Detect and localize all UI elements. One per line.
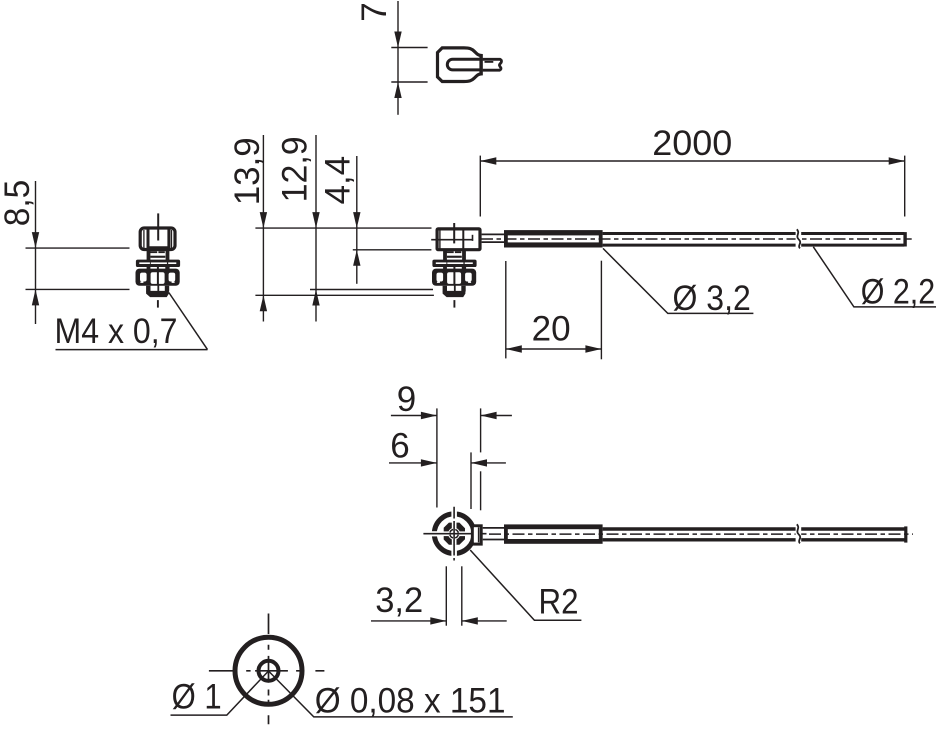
nut facet right <box>169 273 176 282</box>
dimension 7 arrow up <box>394 82 401 98</box>
extension line right <box>904 156 906 217</box>
extension line 12,9 <box>310 289 433 291</box>
head block inner line left <box>439 229 441 251</box>
ring head top view <box>434 514 474 554</box>
tip outline <box>148 286 167 292</box>
extension line top of head <box>255 227 431 229</box>
dimension 7 extension line lower <box>391 81 427 83</box>
washer <box>136 260 180 267</box>
section centerline horizontal <box>209 670 325 672</box>
bolt head front <box>140 228 175 250</box>
tab top view <box>472 526 481 544</box>
svg-text:6: 6 <box>390 426 409 465</box>
svg-text:8,5: 8,5 <box>0 180 37 227</box>
extension line B upper <box>480 408 482 452</box>
tip centerline <box>157 286 159 292</box>
extension line A <box>436 408 438 507</box>
cable break white gap <box>796 229 802 249</box>
cable bottom wall (lower) <box>603 538 905 541</box>
svg-text:Ø 0,08 x 151: Ø 0,08 x 151 <box>315 682 506 721</box>
nut facet left <box>140 273 147 282</box>
head block centerline horizontal <box>431 239 473 241</box>
tab inner line <box>478 527 480 542</box>
svg-text:9: 9 <box>397 380 416 419</box>
centerline below <box>157 300 159 308</box>
tab inner white slot <box>474 527 480 542</box>
head block side view <box>437 229 480 250</box>
stub line bottom (lower view) <box>483 539 505 541</box>
thread line <box>150 256 165 258</box>
svg-text:M4 x 0,7: M4 x 0,7 <box>55 312 178 351</box>
ring gap bottom <box>451 551 457 560</box>
dimension 8,5 arrow up <box>32 289 39 305</box>
thread dash row <box>150 251 157 253</box>
head block inner line mid <box>462 229 464 251</box>
bolt head tangent line right <box>171 230 173 249</box>
svg-text:13,9: 13,9 <box>228 137 267 205</box>
head slot end view <box>447 59 481 70</box>
stub line bottom <box>482 241 505 243</box>
svg-text:Ø 3,2: Ø 3,2 <box>673 279 751 318</box>
dimension 12,9 line <box>315 135 317 322</box>
dimension 7 arrow down <box>394 32 401 48</box>
hex insert crosshair gaps <box>444 531 466 536</box>
svg-text:12,9: 12,9 <box>276 136 315 202</box>
head crosshair horizontal <box>423 533 486 535</box>
washer white stripes <box>139 262 150 264</box>
bolt head tangent line left <box>143 230 145 249</box>
label D0,08 leader <box>269 671 513 717</box>
bolt lower assembly (neck, washer, nut, tip) <box>136 251 181 308</box>
cable bottom wall <box>603 244 905 247</box>
dimension 9 line left <box>391 415 437 417</box>
svg-text:7: 7 <box>355 2 394 21</box>
cable break white gap (lower) <box>796 524 802 545</box>
svg-text:3,2: 3,2 <box>375 581 423 620</box>
nut centerline <box>157 269 159 285</box>
ring gap top <box>451 509 457 518</box>
label M4 leader <box>169 293 208 350</box>
nut <box>136 269 180 286</box>
sleeve top view <box>504 524 603 543</box>
section outer circle <box>235 637 302 704</box>
fiber core circle white <box>448 528 460 540</box>
cable centerline (lower) <box>489 533 913 535</box>
dimension 9 line right <box>481 415 512 417</box>
head crosshair vertical <box>453 507 455 561</box>
nut facet middle <box>151 272 165 284</box>
label M4 underline <box>56 349 208 351</box>
dimension 4,4 line <box>356 156 358 284</box>
extension line left <box>479 156 481 217</box>
dimension 2000 line <box>480 160 904 162</box>
cable break squiggle <box>797 229 800 248</box>
head block tick <box>472 235 474 241</box>
bolt lower assembly side view <box>432 251 477 308</box>
label D1 leader <box>171 671 269 715</box>
extension line C <box>470 452 472 509</box>
svg-text:4,4: 4,4 <box>319 156 358 205</box>
dimension 6 line left <box>389 462 437 464</box>
dimension 8,5 extension line lower <box>26 288 130 290</box>
head tab end view <box>483 59 502 70</box>
dimension 6 line right <box>471 462 506 464</box>
head tab mid line <box>485 61 494 63</box>
stub line top (lower view) <box>483 527 505 529</box>
bolt head inner window <box>148 230 169 248</box>
ring gap left <box>429 531 438 536</box>
hex insert top view <box>444 523 465 545</box>
neck side right <box>166 251 170 260</box>
dimension 8,5 extension line upper <box>26 247 130 249</box>
dimension 8,5 line <box>35 181 37 324</box>
dimension 13,9 line <box>262 135 264 322</box>
svg-text:2000: 2000 <box>652 124 732 163</box>
cable break squiggle (lower) <box>797 524 800 543</box>
svg-text:Ø 2,2: Ø 2,2 <box>861 272 936 311</box>
head body end view outline <box>438 48 482 82</box>
head block centerline vertical <box>453 223 455 243</box>
cable end cap (lower) <box>904 526 907 542</box>
dimension 8,5 arrow down <box>32 232 39 248</box>
dimension 7 line <box>397 1 399 115</box>
centerline above bolt <box>157 213 159 240</box>
extension line 4,4 <box>353 249 432 251</box>
fiber core circle <box>450 529 459 538</box>
cable top wall <box>603 232 905 235</box>
dimension 7 extension line upper <box>391 47 427 49</box>
section core circle <box>259 661 279 681</box>
tip dark end <box>146 291 169 297</box>
shaft between washer and nut <box>147 267 151 269</box>
sleeve side view <box>504 230 603 247</box>
cable end cap <box>903 232 906 246</box>
cable centerline <box>481 238 912 240</box>
svg-text:Ø 1: Ø 1 <box>172 678 222 717</box>
cable top wall (lower) <box>603 527 905 530</box>
extension line 13,9 <box>255 294 434 296</box>
extension line B lower <box>480 471 482 510</box>
neck side left <box>147 251 151 260</box>
stub line top <box>482 233 505 235</box>
section centerline vertical <box>268 614 270 725</box>
head body right edge bar <box>479 54 482 75</box>
svg-text:20: 20 <box>532 310 571 349</box>
svg-text:R2: R2 <box>539 582 579 621</box>
